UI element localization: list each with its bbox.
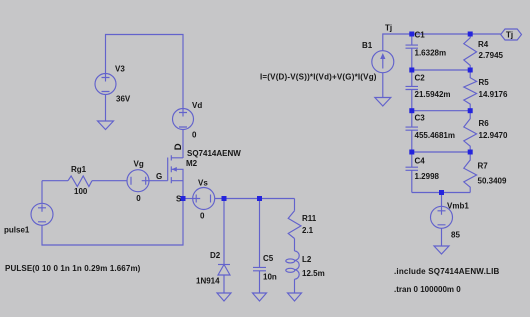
svg-text:PULSE(0 10 0 1n 1n 0.29m 1.667: PULSE(0 10 0 1n 1n 0.29m 1.667m) [5,264,141,273]
resistor R7 [464,152,477,193]
junction D2 tap [222,196,227,201]
wire R11 branch top [294,199,296,211]
capacitor C5 [253,267,266,270]
behavioral current source B1 [372,51,394,73]
wire R11 to L2 [294,239,296,252]
svg-text:100: 100 [74,187,88,196]
ground (B1) [375,98,391,107]
svg-text:2.7945: 2.7945 [479,51,504,60]
svg-text:R11: R11 [302,214,317,223]
wire row2 [412,69,470,71]
svg-text:Vmb1: Vmb1 [447,202,469,211]
wire source node to Vs [183,198,193,200]
diode D2 [218,265,230,276]
svg-text:50.3409: 50.3409 [478,177,507,186]
wire pulse1 bottom loop to source node [42,199,183,246]
body-diode arrow of M2 [172,167,177,172]
wire D2 to ground [223,275,225,293]
svg-text:C2: C2 [415,74,426,83]
ground (C5) [253,293,267,301]
svg-text:V3: V3 [115,65,125,74]
wire thermal top rail [412,33,501,35]
svg-text:12.9470: 12.9470 [479,131,508,140]
svg-text:10n: 10n [263,273,277,282]
svg-text:455.4681m: 455.4681m [415,131,455,140]
svg-text:pulse1: pulse1 [4,226,30,235]
svg-text:Vg: Vg [134,160,144,169]
junction row3 res column [468,108,473,113]
svg-text:Vd: Vd [192,101,202,110]
junction row4 cap column [409,150,414,155]
svg-text:12.5m: 12.5m [302,269,325,278]
wire Rg1 to Vg [92,180,127,182]
svg-text:0: 0 [200,212,205,221]
wire C5 to ground [259,271,261,293]
svg-text:0: 0 [192,131,197,140]
svg-text:D2: D2 [210,251,221,260]
svg-text:G: G [156,172,162,181]
svg-text:R7: R7 [478,162,489,171]
wire top rail V3 to Vd [106,35,184,109]
voltage source V3 [95,74,116,95]
junction C5 tap [257,196,262,201]
voltage source Vd [173,109,194,130]
svg-text:Tj: Tj [385,24,392,33]
wire row4 [412,151,470,153]
wire L2 to ground [294,279,296,293]
svg-text:14.9176: 14.9176 [479,90,508,99]
capacitor C2 [411,70,413,86]
resistor R6 [464,111,477,152]
wire pulse1 top [41,181,43,204]
wire V3 bottom to ground [105,95,107,122]
wire Vs to R11 branch [215,198,295,200]
svg-text:R6: R6 [479,119,490,128]
svg-text:D: D [173,143,184,150]
wire Vg to gate [149,180,168,182]
junction Vmb1 tap [439,190,444,195]
wire B1 bottom [382,73,384,98]
wire Vd bottom to drain [182,130,184,159]
capacitor C3 [411,111,413,127]
resistor R11 [288,211,301,239]
svg-text:R4: R4 [478,40,489,49]
junction row2 res column [468,68,473,73]
wire row3 [412,110,470,112]
arrow of B1 [380,53,385,59]
capacitor C1 [411,34,413,45]
svg-text:.tran 0 100000m 0: .tran 0 100000m 0 [394,285,461,294]
resistor R5 [464,70,477,111]
svg-text:2.1: 2.1 [302,226,314,235]
svg-text:L2: L2 [302,255,312,264]
voltage source Vmb1 [431,206,453,228]
capacitor C4 [411,152,413,167]
voltage source pulse1 [31,203,53,225]
resistor Rg1 [68,176,92,187]
junction rail1 res column [468,32,473,37]
junction row2 cap column [409,68,414,73]
voltage source Vg [127,170,150,192]
wire C5 branch [259,199,261,268]
wire gate row from pulse1 [42,180,68,182]
junction row4 res column [468,150,473,155]
wire bottom rail [412,192,470,194]
svg-text:1N914: 1N914 [196,277,220,286]
svg-text:M2: M2 [186,159,198,168]
wire D2 branch [223,199,225,265]
svg-text:1.2998: 1.2998 [415,172,440,181]
wire Vmb1 top [441,193,443,207]
svg-text:.include SQ7414AENW.LIB: .include SQ7414AENW.LIB [394,267,500,276]
wire B1 top to thermal rail [383,34,412,51]
ground (D2) [217,293,231,301]
svg-text:C5: C5 [263,254,274,263]
svg-text:R5: R5 [479,78,490,87]
transistor M2 [168,155,183,198]
svg-text:1.6328m: 1.6328m [415,49,447,58]
voltage source Vs [192,188,215,210]
svg-text:Vs: Vs [198,179,208,188]
wire Vmb1 bottom [441,228,443,246]
svg-text:C1: C1 [415,31,426,40]
svg-text:B1: B1 [362,41,373,50]
ground (V3) [98,121,114,130]
ground (L2) [288,293,302,301]
svg-text:0: 0 [136,194,141,203]
svg-text:C3: C3 [415,114,426,123]
svg-text:Rg1: Rg1 [71,165,87,174]
svg-text:36V: 36V [116,95,131,104]
svg-text:21.5942m: 21.5942m [415,90,451,99]
svg-text:85: 85 [451,231,460,240]
junction rail1 cap column [409,32,414,37]
svg-text:C4: C4 [415,157,426,166]
net flag Tj [501,29,522,40]
ground (Vmb1) [434,246,449,254]
svg-text:Tj: Tj [506,31,513,40]
svg-text:SQ7414AENW: SQ7414AENW [187,149,241,158]
resistor R4 [464,34,477,70]
junction S node [181,196,186,201]
inductor L2 [286,251,299,279]
junction row3 cap column [409,108,414,113]
svg-text:I=(V(D)-V(S))*I(Vd)+V(G)*I(Vg): I=(V(D)-V(S))*I(Vd)+V(G)*I(Vg) [260,73,377,82]
